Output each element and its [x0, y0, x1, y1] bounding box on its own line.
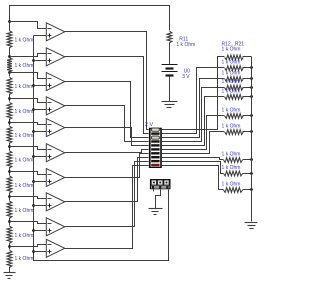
svg-text:1 k Ohm: 1 k Ohm	[15, 158, 34, 164]
junction bus tap 5	[32, 130, 35, 133]
junction R21 to bus	[250, 188, 253, 191]
node ladder tap 4	[8, 97, 11, 100]
op-amp U8	[46, 193, 64, 211]
resistor R2 1k (ladder)	[9, 57, 11, 58]
op-amp U3	[46, 73, 64, 91]
junction R14 to bus	[250, 77, 253, 80]
resistor R6 1k (ladder)	[9, 147, 11, 151]
svg-text:1 k Ohm: 1 k Ohm	[222, 124, 241, 130]
wire ladder tap 3 to U3 inverting input	[10, 73, 47, 79]
junction bus tap 10	[32, 250, 35, 253]
wire ladder tap 8 to U8 inverting input	[10, 197, 47, 199]
resistor R21 1k	[224, 188, 243, 193]
svg-text:1 k Ohm: 1 k Ohm	[222, 79, 241, 85]
op-amp U10	[46, 239, 64, 257]
wire bus to U8 non-inverting input	[34, 205, 47, 207]
resistor R16 1k	[225, 95, 244, 100]
wire pot wiper to ground	[156, 190, 161, 209]
wire battery to ground	[169, 77, 171, 102]
resistor R14 1k	[225, 77, 244, 82]
wire U5 output to bargraph pin 5	[65, 128, 149, 146]
svg-text:1 k Ohm: 1 k Ohm	[222, 71, 241, 77]
node ladder tap 8	[8, 195, 11, 198]
junction bus tap 2	[32, 59, 35, 62]
resistor R20 1k	[224, 171, 243, 176]
resistor R3 1k (ladder)	[9, 73, 11, 77]
wire bargraph pin 2 to R13	[162, 68, 225, 134]
wire bargraph pin 10 to R21	[162, 166, 224, 190]
op-amp U1	[46, 23, 64, 41]
node ladder tap 10	[8, 245, 11, 248]
svg-text:1 k Ohm: 1 k Ohm	[176, 42, 195, 48]
junction bus tap 6	[32, 155, 35, 158]
wire from ladder top to R11	[10, 6, 170, 31]
op-amp U2	[46, 48, 64, 66]
op-amp U9	[46, 218, 64, 236]
svg-text:1 k Ohm: 1 k Ohm	[222, 88, 241, 94]
resistor R17 1k	[225, 114, 244, 119]
wire U6 output to bargraph pin 6	[65, 150, 149, 153]
wire bargraph pin 1 to R12	[162, 57, 225, 130]
svg-text:1 k Ohm: 1 k Ohm	[15, 256, 34, 262]
op-amp U5	[46, 119, 64, 137]
svg-text:1 k Ohm: 1 k Ohm	[222, 60, 241, 66]
svg-text:3 V: 3 V	[182, 74, 190, 80]
node ladder tap 3	[8, 71, 11, 74]
junction bus tap 9	[32, 229, 35, 232]
ground (ladder bottom)	[9, 271, 11, 273]
wire bargraph pin 7 to R18	[162, 132, 225, 154]
wire U2 output to bargraph pin 2	[65, 57, 149, 134]
junction R20 to bus	[250, 172, 253, 175]
resistor R10 1k (ladder)	[9, 247, 11, 250]
resistor R18 1k	[225, 130, 244, 135]
resistor R8 1k (ladder)	[9, 197, 11, 201]
junction bus tap 8	[32, 204, 35, 207]
junction R19 to bus	[250, 158, 253, 161]
node ladder tap 1	[8, 20, 11, 23]
svg-text:1 k Ohm: 1 k Ohm	[15, 233, 34, 239]
wire bus to U4 non-inverting input	[34, 109, 47, 111]
svg-text:2 V: 2 V	[145, 122, 154, 128]
wire ladder tap 2 to U2 inverting input	[10, 54, 47, 57]
wire ladder tap 1 to U1 inverting input	[10, 22, 47, 29]
resistor R9 1k (ladder)	[9, 222, 11, 226]
resistor R5 1k (ladder)	[9, 123, 11, 126]
resistor R15 1k	[225, 85, 244, 90]
svg-text:1 k Ohm: 1 k Ohm	[15, 208, 34, 214]
wire bargraph pin 5 to R16	[162, 97, 225, 146]
wire bargraph pin 9 to R20	[162, 162, 224, 174]
junction bus tap 7	[32, 180, 35, 183]
wire ladder tap 7 to U7 inverting input	[10, 172, 47, 175]
potentiometer input source	[150, 179, 171, 189]
junction R17 to bus	[250, 114, 253, 117]
svg-text:1 k Ohm: 1 k Ohm	[15, 84, 34, 90]
wire bus to U7 non-inverting input	[34, 181, 47, 183]
svg-text:1 k Ohm: 1 k Ohm	[222, 182, 241, 188]
resistor R11 1k	[167, 31, 172, 42]
wire ladder tap 4 to U4 inverting input	[10, 99, 47, 103]
wire ladder tap 9 to U9 inverting input	[10, 222, 47, 224]
wire U7 output to bargraph pin 7	[65, 154, 149, 178]
node ladder tap 9	[8, 220, 11, 223]
wire U9 output to bargraph pin 9	[65, 162, 149, 227]
wire ladder tap 6 to U6 inverting input	[10, 147, 47, 150]
op-amp U4	[46, 97, 64, 115]
svg-text:1 k Ohm: 1 k Ohm	[15, 133, 34, 139]
svg-text:1 k Ohm: 1 k Ohm	[15, 183, 34, 189]
op-amp U6	[46, 144, 64, 162]
resistor R7 1k (ladder)	[9, 172, 11, 176]
resistor R19 1k	[224, 158, 243, 163]
svg-text:1 k Ohm: 1 k Ohm	[15, 63, 34, 69]
resistor R13 1k	[225, 66, 244, 71]
node ladder tap 6	[8, 145, 11, 148]
wire bargraph pin 3 to R14	[162, 79, 225, 138]
svg-text:1 k Ohm: 1 k Ohm	[15, 109, 34, 115]
svg-text:1 k Ohm: 1 k Ohm	[222, 152, 241, 158]
ground (pot)	[149, 208, 163, 210]
wire U8 output to bargraph pin 8	[65, 158, 149, 202]
wire bus to U6 non-inverting input	[34, 156, 47, 158]
wire U10 output to bargraph pin 10	[65, 166, 149, 249]
wire bargraph pin 8 to R19	[162, 158, 224, 160]
wire bus to U3 non-inverting input	[34, 85, 47, 87]
op-amp U7	[46, 169, 64, 187]
node ladder tap 2	[8, 55, 11, 58]
svg-text:1 k Ohm: 1 k Ohm	[15, 38, 34, 44]
node ladder tap 7	[8, 170, 11, 173]
ground (battery)	[162, 101, 178, 103]
svg-text:1 k Ohm: 1 k Ohm	[222, 107, 241, 113]
wire bargraph pin 4 to R15	[162, 88, 225, 142]
wire U4 output to bargraph pin 4	[65, 106, 149, 142]
junction R18 to bus	[250, 130, 253, 133]
wire signal bus to pot	[34, 36, 169, 261]
wire bus to U1 non-inverting input	[34, 35, 47, 37]
LED bargraph display	[149, 128, 162, 168]
ground (right bus)	[245, 222, 258, 224]
wire right return bus	[251, 57, 253, 222]
node ladder tap 5	[8, 121, 11, 124]
resistor R12 1k	[225, 55, 244, 60]
wire bargraph pin 6 to R17	[162, 116, 225, 150]
junction R16 to bus	[250, 95, 253, 98]
junction R13 to bus	[250, 66, 253, 69]
wire U1 output to bargraph pin 1	[65, 32, 149, 130]
wire bus to U5 non-inverting input	[34, 131, 47, 133]
junction R15 to bus	[250, 86, 253, 89]
wire pot left pin stub	[153, 190, 155, 192]
battery U0 3V	[162, 64, 178, 66]
wire bus to U2 non-inverting input	[34, 60, 47, 62]
svg-text:1 k Ohm: 1 k Ohm	[222, 165, 241, 171]
resistor R1 1k (ladder)	[9, 22, 11, 31]
wire ladder tap 10 to U10 inverting input	[10, 245, 47, 247]
svg-text:1 k Ohm: 1 k Ohm	[222, 47, 241, 53]
junction bus tap 4	[32, 108, 35, 111]
wire ladder tap 5 to U5 inverting input	[10, 123, 47, 125]
junction bus tap 3	[32, 84, 35, 87]
wire bus to U9 non-inverting input	[34, 230, 47, 232]
wire U3 output to bargraph pin 3	[65, 82, 149, 138]
wire bus to U10 non-inverting input	[34, 251, 47, 253]
resistor R4 1k (ladder)	[9, 99, 11, 102]
